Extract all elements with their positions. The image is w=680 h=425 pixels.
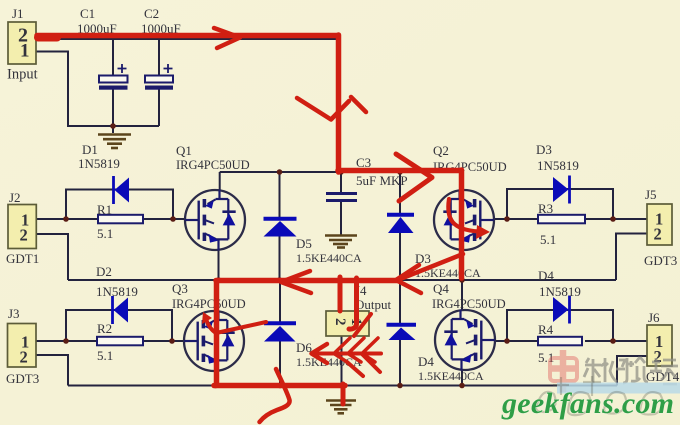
red annotation down arrow extra stroke (351, 97, 366, 112)
red annotation top wire (37, 33, 338, 39)
red annotation through Q3 (214, 281, 220, 384)
svg-text:5.1: 5.1 (97, 226, 113, 241)
wire D4 TVS branch (399, 280, 401, 386)
red annotation ground stub (341, 384, 346, 404)
svg-text:GDT3: GDT3 (644, 253, 677, 268)
svg-text:2: 2 (332, 318, 348, 326)
svg-text:1N5819: 1N5819 (537, 158, 579, 173)
red annotation big arrow before Q2 (396, 154, 432, 201)
svg-text:Q4: Q4 (433, 281, 449, 296)
junction mid rail Q2 emitter (459, 277, 465, 283)
wire J6 pin1 to R4/D4 (494, 340, 647, 342)
svg-text:D3: D3 (536, 142, 552, 157)
svg-text:IRG4PC50UD: IRG4PC50UD (176, 158, 250, 172)
svg-text:1.5KE440CA: 1.5KE440CA (296, 251, 362, 265)
red annotation through Q2 (459, 170, 465, 278)
svg-text:J3: J3 (8, 306, 20, 321)
junction R2 left (63, 338, 69, 344)
wire Q4 emitter (461, 370, 463, 386)
svg-text:Q2: Q2 (433, 143, 449, 158)
red annotation cluster feather 1 (334, 338, 350, 362)
svg-text:D2: D2 (96, 264, 112, 279)
transistor Q2 IGBT (434, 190, 494, 251)
junction bottom rail Q4 emitter (459, 383, 465, 389)
wire Q3 emitter (215, 369, 217, 386)
red annotation J4 stem (338, 277, 343, 311)
capacitor C3 (326, 194, 357, 201)
svg-text:geekfans.com: geekfans.com (501, 387, 674, 420)
red annotation squiggle (260, 369, 290, 422)
TVS diode D6 (264, 323, 296, 341)
RED (37, 28, 490, 422)
svg-text:2: 2 (20, 348, 28, 367)
red annotation cluster fan down1 (362, 354, 380, 372)
wire Q3 collector (215, 280, 217, 313)
resistor R1 (98, 215, 143, 224)
svg-text:R2: R2 (97, 321, 112, 336)
junction mid rail D3 TVS (397, 277, 403, 283)
svg-text:Q3: Q3 (172, 281, 188, 296)
wire D3 parallel loop (507, 189, 613, 219)
wire C2 stems (158, 39, 160, 126)
ground under J4 (326, 401, 356, 414)
red annotation swoosh tip (476, 225, 490, 239)
svg-text:IRG4PC50UD: IRG4PC50UD (172, 297, 246, 311)
svg-text:2: 2 (654, 225, 662, 244)
connector J5 (647, 204, 672, 245)
capacitor C2 (145, 64, 173, 90)
junction bottom rail J4 ground (339, 383, 345, 389)
red annotation mid arrow (396, 265, 421, 293)
svg-text:2: 2 (20, 226, 28, 245)
wire Q1 emitter (218, 249, 220, 281)
red annotation cluster fan up (354, 314, 371, 336)
connector J4 (326, 311, 369, 336)
wire J3 pin2 return (36, 355, 68, 386)
svg-text:J2: J2 (9, 190, 21, 205)
diode D2 (113, 296, 129, 324)
svg-text:5.1: 5.1 (97, 348, 113, 363)
svg-text:1: 1 (20, 41, 30, 62)
watermark red stamp logo (548, 350, 578, 392)
wire J1 pin2 to top node (36, 39, 340, 172)
junction R4 left (504, 338, 510, 344)
svg-text:IRG4PC50UD: IRG4PC50UD (432, 297, 506, 311)
svg-text:J5: J5 (645, 187, 657, 202)
junction R2 right (169, 338, 175, 344)
red annotation diagonal into mid rail (399, 254, 463, 280)
wire D6 branch (279, 280, 281, 386)
wire C3 stem (340, 172, 342, 235)
resistor R3 (538, 215, 585, 224)
red annotation Q3 hook tip (202, 312, 212, 324)
junction bottom rail D4 TVS (397, 383, 403, 389)
svg-text:1N5819: 1N5819 (78, 156, 120, 171)
watermark blue band (557, 383, 680, 394)
svg-text:D1: D1 (82, 142, 98, 157)
wire middle output rail (68, 279, 616, 281)
ground under C1 (98, 135, 131, 149)
connector J1 (8, 22, 36, 64)
red annotation arrow on top wire (214, 28, 240, 48)
junction top rail D5 (277, 169, 283, 175)
svg-text:5uF MKP: 5uF MKP (356, 173, 408, 188)
wire Q4 collector (461, 280, 463, 311)
diode D4 (553, 296, 570, 324)
red annotation along mid rail (216, 278, 398, 284)
red annotation cluster feather 3 (362, 338, 378, 362)
svg-text:Input: Input (7, 67, 38, 83)
red annotation arrow on mid rail (281, 271, 311, 293)
junction R3 left (504, 216, 510, 222)
svg-text:R4: R4 (538, 322, 554, 337)
junction R1 right (170, 216, 176, 222)
svg-text:5.1: 5.1 (540, 232, 556, 247)
red annotation swoosh in Q2 (448, 199, 479, 232)
TVS diode D5 (264, 219, 297, 237)
resistor R4 (538, 337, 582, 346)
wire top rail (220, 171, 462, 173)
junction R4 right (610, 338, 616, 344)
wire J5 pin2 return (616, 234, 647, 281)
red annotation start blob (38, 34, 57, 42)
red annotation cluster line (312, 352, 381, 356)
transistor Q4 IGBT (435, 310, 495, 371)
junction top rail D3 TVS (397, 169, 403, 175)
red annotation down arrow (297, 98, 349, 120)
svg-text:GDT3: GDT3 (6, 371, 39, 386)
resistor R2 (97, 337, 143, 346)
svg-text:Output: Output (355, 297, 392, 312)
svg-text:GDT1: GDT1 (6, 251, 39, 266)
TVS diode D4 lower (387, 325, 417, 340)
svg-text:1N5819: 1N5819 (96, 284, 138, 299)
wire D2 parallel loop (66, 310, 172, 341)
wire Q2 emitter (461, 249, 463, 281)
wire Q2 collector (461, 172, 463, 191)
svg-text:D4: D4 (538, 268, 554, 283)
diode D1 (114, 176, 130, 204)
transistor Q1 IGBT (185, 190, 245, 251)
TVS diode D3 lower (387, 215, 414, 233)
wire J2 pin2 return (36, 234, 68, 280)
red annotation Q3 hook tail (206, 319, 266, 333)
junction mid rail Q1 emitter (216, 277, 222, 283)
capacitor C1 (99, 64, 128, 90)
wire C1 stems (112, 39, 114, 133)
junction mid rail D5 (277, 277, 283, 283)
svg-text:C1: C1 (80, 6, 95, 21)
svg-text:D5: D5 (296, 236, 312, 251)
red annotation cluster big arrow (312, 344, 328, 363)
junction top rail C3 (338, 169, 344, 175)
wire J2 pin1 to R1/D1 (36, 218, 186, 220)
svg-text:R1: R1 (97, 202, 112, 217)
connector J2 (8, 205, 36, 249)
wire D4 parallel loop (507, 310, 613, 341)
red annotation vertical drop (336, 35, 342, 172)
wire Q1 collector (219, 172, 221, 191)
svg-text:J1: J1 (12, 6, 24, 21)
wire bottom rail (68, 385, 617, 387)
red annotation along top rail (338, 168, 460, 174)
wire J3 pin1 to R2/D2 (36, 340, 187, 342)
diode D3 (553, 176, 570, 204)
svg-text:1.5KE440CA: 1.5KE440CA (418, 369, 484, 383)
red annotation cluster fan down2 (347, 362, 363, 376)
junction bottom rail D6 (277, 383, 283, 389)
junction mid rail J4 (338, 277, 344, 283)
svg-text:J6: J6 (648, 310, 660, 325)
red annotation J4 inner stroke (349, 278, 357, 329)
ground under C3 (325, 236, 357, 248)
transistor Q3 IGBT (184, 311, 244, 372)
junction C1 bottom (110, 123, 116, 129)
wire D3 TVS branch (399, 172, 401, 281)
wire J4 stems (340, 280, 343, 399)
wire D5 branch (279, 172, 281, 281)
wire J1 pin1 to cap bottom bus (36, 52, 159, 127)
connector J3 (8, 324, 37, 368)
wire J6 pin2 return (617, 356, 647, 386)
wire J5 pin1 to R3/D3 (493, 218, 647, 220)
wire D1 parallel loop (66, 190, 173, 220)
junction R3 right (610, 216, 616, 222)
svg-text:C2: C2 (144, 6, 159, 21)
svg-text:D4: D4 (418, 354, 434, 369)
junction R1 left (63, 216, 69, 222)
svg-text:Q1: Q1 (176, 143, 192, 158)
watermark hollow glyphs (536, 376, 663, 415)
red annotation along bottom rail (214, 383, 345, 389)
svg-text:1N5819: 1N5819 (539, 284, 581, 299)
junction bottom rail Q3 emitter (213, 383, 219, 389)
connector J6 (647, 325, 672, 366)
svg-text:R3: R3 (538, 201, 553, 216)
red annotation cluster feather 2 (348, 338, 364, 362)
watermark gray chinese characters (584, 357, 678, 384)
